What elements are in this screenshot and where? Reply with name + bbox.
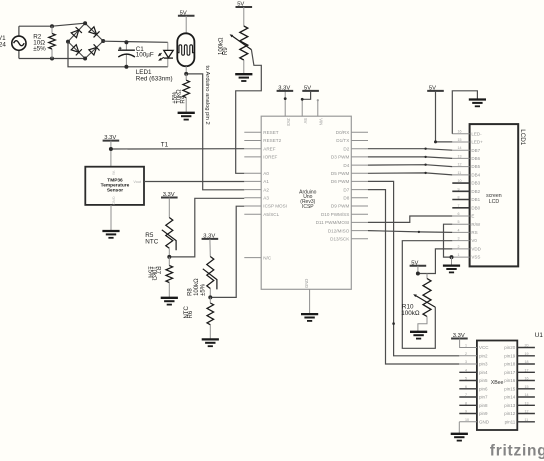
svg-text:6: 6 (465, 385, 467, 389)
svg-text:A5/SCL: A5/SCL (263, 212, 279, 217)
ground below XBee (451, 434, 468, 441)
svg-text:pin18: pin18 (504, 362, 516, 367)
svg-text:D7: D7 (343, 187, 349, 192)
wire bottom rail V1 to bridge (19, 57, 85, 61)
potentiometer R10 (401, 274, 435, 332)
5V power symbol above photoresistor (178, 10, 195, 33)
wire 5V to LCD LED+ (434, 91, 452, 143)
svg-text:D8: D8 (343, 196, 349, 201)
svg-text:D10 PWM/SS: D10 PWM/SS (321, 212, 349, 217)
svg-text:15: 15 (458, 138, 462, 142)
wire D7 to XBee pin3 (368, 190, 459, 364)
svg-text:13: 13 (525, 401, 529, 405)
wire D12 to LCD RS (368, 231, 452, 233)
svg-text:RS: RS (471, 230, 477, 235)
svg-text:U1: U1 (535, 332, 544, 339)
svg-text:pin5: pin5 (479, 378, 488, 383)
svg-text:±5%: ±5% (33, 46, 46, 53)
svg-text:DB3: DB3 (471, 181, 480, 186)
svg-text:DB1: DB1 (471, 197, 480, 202)
svg-text:pin2: pin2 (479, 353, 488, 358)
svg-text:XBee: XBee (491, 380, 504, 386)
svg-text:18: 18 (525, 360, 529, 364)
wire D3 to LCD DB6 (368, 156, 452, 159)
svg-text:A2: A2 (263, 187, 269, 192)
svg-text:pin7: pin7 (479, 395, 488, 400)
svg-text:±5%: ±5% (200, 283, 206, 296)
svg-text:LCD: LCD (489, 199, 500, 205)
potentiometer R9 (219, 26, 252, 74)
svg-text:pin11: pin11 (505, 419, 516, 424)
svg-text:20: 20 (525, 344, 529, 348)
label to Arduino analog pin 2 (204, 65, 210, 124)
wire bridge left node to lower rail (68, 42, 168, 67)
svg-text:8: 8 (465, 401, 467, 405)
svg-text:A0: A0 (263, 171, 269, 176)
temperature sensor TMP36 box (85, 167, 144, 205)
svg-text:V0: V0 (471, 238, 477, 243)
svg-text:D2: D2 (343, 146, 349, 151)
svg-text:11: 11 (525, 418, 529, 422)
svg-text:10: 10 (458, 179, 462, 183)
svg-text:VDD: VDD (471, 247, 481, 252)
svg-text:D0/RX: D0/RX (336, 130, 350, 135)
svg-text:12: 12 (458, 163, 462, 167)
resistor R6 (184, 297, 214, 338)
svg-text:LED+: LED+ (471, 140, 483, 145)
ground below R6 (202, 339, 219, 346)
LCD screen block LCD1 (470, 124, 527, 266)
svg-text:D9 PWM: D9 PWM (331, 204, 350, 209)
svg-text:pin8: pin8 (479, 403, 488, 408)
svg-text:pin6: pin6 (479, 386, 488, 391)
svg-text:8: 8 (458, 196, 460, 200)
svg-text:1: 1 (458, 253, 460, 257)
svg-text:16: 16 (458, 130, 462, 134)
wire top rail V1 to bridge (19, 23, 85, 28)
svg-text:pin12: pin12 (504, 411, 516, 416)
svg-text:100kΩ: 100kΩ (194, 278, 200, 296)
diode D upper-right (88, 26, 99, 37)
svg-text:D1/TX: D1/TX (336, 138, 349, 143)
svg-text:Sensor: Sensor (107, 187, 123, 193)
svg-text:D3 PWM: D3 PWM (331, 155, 350, 160)
XBee left pin stubs, numbers and labels (459, 344, 489, 425)
wire bridge right node to LED top rail (103, 41, 168, 42)
svg-text:19: 19 (525, 352, 529, 356)
3.3V power symbol above R5 (161, 192, 178, 217)
svg-text:14: 14 (525, 393, 529, 397)
svg-text:13: 13 (458, 154, 462, 158)
svg-text:24: 24 (0, 41, 6, 48)
wire D11 to LCD E (368, 216, 452, 222)
svg-text:DB2: DB2 (471, 189, 480, 194)
svg-text:7: 7 (465, 393, 467, 397)
ground below arduino (301, 314, 318, 321)
wire TMP36 GND pin down (110, 205, 112, 230)
svg-text:17: 17 (525, 368, 529, 372)
svg-text:RESET2: RESET2 (263, 138, 281, 143)
wire D6 to XBee pin2 (368, 181, 459, 355)
wire LCD R/W and VSS to ground junction (444, 224, 454, 259)
svg-text:D4: D4 (343, 163, 349, 168)
ground below R4 (178, 113, 195, 120)
wire TMP36 Vout to Arduino pin A1 (144, 181, 244, 183)
svg-text:pin4: pin4 (479, 370, 488, 375)
capacitor C1 (118, 40, 154, 69)
svg-text:14: 14 (458, 146, 462, 150)
wire R9 wiper to Arduino pin A0 (236, 50, 262, 174)
svg-text:R8: R8 (188, 288, 194, 296)
svg-text:R/W: R/W (471, 222, 481, 227)
5V power symbol above R9 (236, 2, 253, 26)
wire XBee GND to ground (458, 422, 460, 433)
diode D upper-left (71, 27, 82, 38)
svg-text:NTC: NTC (145, 238, 158, 245)
svg-text:D6 PWM: D6 PWM (331, 179, 350, 184)
svg-text:to Arduino analog pin 2: to Arduino analog pin 2 (204, 65, 210, 124)
svg-text:A1: A1 (263, 179, 269, 184)
svg-text:±5%: ±5% (173, 91, 179, 104)
svg-text:9: 9 (458, 187, 460, 191)
thermistor R8 (188, 257, 217, 298)
svg-text:100kΩ: 100kΩ (401, 310, 420, 317)
arduino left pin stubs and labels (244, 130, 287, 260)
wire 3.3V to XBee VCC (458, 339, 460, 348)
wire D2 to LCD DB7 (368, 148, 452, 151)
svg-text:10: 10 (465, 418, 469, 422)
ground below R9 (235, 74, 252, 81)
3.3V power symbol above XBee (451, 333, 468, 339)
svg-text:16: 16 (525, 377, 529, 381)
LCD pin stubs, numbers and labels (452, 130, 483, 260)
diode D lower-left (71, 44, 82, 55)
wire R8/R6 junction to Arduino ICSP MOSI (208, 206, 244, 299)
thermistor R5 (145, 218, 176, 257)
XBee right pin stubs, numbers and labels (504, 344, 535, 425)
svg-text:9: 9 (465, 410, 467, 414)
wire 5V to LCD VDD (418, 249, 452, 274)
5V power symbol above arduino (301, 86, 319, 101)
svg-text:VSS: VSS (471, 255, 480, 260)
svg-text:A3: A3 (263, 196, 269, 201)
svg-text:5V: 5V (303, 118, 308, 123)
svg-text:Red (633nm): Red (633nm) (136, 76, 173, 83)
arduino right pin stubs and labels (316, 130, 368, 242)
ground above LCD (469, 100, 486, 107)
ground below TMP36 (102, 231, 119, 238)
wire R5/R7 junction to Arduino pin A3 (167, 198, 244, 259)
svg-text:6: 6 (458, 212, 460, 216)
svg-text:VIN: VIN (318, 118, 323, 125)
svg-text:pin17: pin17 (504, 370, 516, 375)
svg-text:ICSP: ICSP (302, 204, 314, 210)
svg-text:D12/MISO: D12/MISO (328, 228, 350, 233)
svg-text:IOREF: IOREF (263, 155, 277, 160)
arduino top pin stubs 3V3 5V VIN (285, 91, 323, 127)
svg-text:NTC: NTC (184, 306, 190, 319)
svg-text:100µF: 100µF (136, 52, 154, 59)
diode D lower-right (88, 44, 99, 55)
svg-text:RESET: RESET (263, 130, 279, 135)
svg-text:100kΩ: 100kΩ (219, 37, 225, 55)
svg-text:2: 2 (458, 245, 460, 249)
svg-text:VCC: VCC (479, 345, 489, 350)
svg-text:N/C: N/C (263, 255, 272, 260)
LED LED1 (136, 42, 173, 82)
svg-text:GND: GND (304, 279, 309, 288)
svg-text:LCD1: LCD1 (519, 129, 526, 146)
5V power symbol above R10 (410, 260, 427, 275)
svg-text:pin15: pin15 (504, 386, 516, 391)
svg-text:fritzing: fritzing (490, 443, 544, 460)
svg-text:pin19: pin19 (504, 353, 516, 358)
svg-text:4: 4 (465, 368, 467, 372)
3.3V power symbol above arduino (277, 86, 294, 101)
wire LDR junction to Arduino pin A2 (184, 72, 244, 190)
svg-text:ICSP MOSI: ICSP MOSI (263, 204, 287, 209)
3.3V power symbol above R8 (202, 234, 219, 257)
resistor R2 (33, 26, 55, 58)
3.3V power symbol above TMP36 (103, 135, 120, 167)
wire D5 to LCD DB4 (368, 172, 452, 175)
svg-text:Vs: Vs (112, 171, 116, 176)
svg-text:GND: GND (479, 419, 490, 424)
svg-text:Vout: Vout (133, 180, 142, 184)
svg-text:5: 5 (458, 220, 460, 224)
wire R10 wiper to LCD V0 (402, 241, 452, 349)
svg-text:pin20: pin20 (504, 345, 516, 350)
svg-text:pin3: pin3 (479, 362, 488, 367)
arduino U (Uno Rev3) box (261, 116, 351, 289)
svg-text:3: 3 (458, 237, 460, 241)
svg-text:pin16: pin16 (504, 378, 516, 383)
svg-text:7: 7 (458, 204, 460, 208)
svg-text:GND: GND (112, 196, 116, 205)
svg-text:E: E (471, 214, 474, 219)
ground below R10 (410, 332, 427, 339)
svg-text:3: 3 (465, 360, 467, 364)
svg-text:11: 11 (458, 171, 462, 175)
svg-text:2: 2 (465, 352, 467, 356)
svg-text:D11 PWM/MOSI: D11 PWM/MOSI (316, 220, 350, 225)
wire D4 to LCD DB5 (368, 164, 452, 167)
svg-text:5: 5 (465, 377, 467, 381)
XBee block U1 (477, 332, 543, 430)
svg-text:AREF: AREF (263, 146, 275, 151)
svg-text:1: 1 (465, 344, 467, 348)
svg-text:T1: T1 (161, 142, 169, 149)
svg-text:±5%: ±5% (147, 266, 153, 279)
wire LCD LED- to ground (452, 91, 477, 134)
fritzing logo (490, 443, 544, 460)
svg-text:4: 4 (458, 228, 460, 232)
diode bridge edges (66, 21, 105, 60)
svg-text:15: 15 (525, 385, 529, 389)
arduino bottom GND pin (304, 279, 310, 314)
svg-text:pin14: pin14 (504, 395, 516, 400)
5V power symbol above LCD (427, 86, 444, 92)
photoresistor LDR (177, 33, 194, 74)
ac voltage source V1 (0, 26, 26, 58)
resistor R4 (173, 74, 190, 113)
svg-text:DB7: DB7 (471, 148, 480, 153)
svg-text:LED-: LED- (471, 131, 482, 136)
svg-text:DB4: DB4 (471, 173, 480, 178)
svg-text:DB0: DB0 (471, 205, 480, 210)
svg-text:DB5: DB5 (471, 164, 480, 169)
svg-text:pin13: pin13 (504, 403, 516, 408)
ground below LCD VSS (443, 257, 460, 272)
svg-text:12: 12 (525, 410, 529, 414)
svg-text:pin9: pin9 (479, 411, 488, 416)
svg-text:D13/SCK: D13/SCK (330, 237, 350, 242)
svg-text:D5 PWM: D5 PWM (331, 171, 350, 176)
wire T1 to Arduino AREF (109, 142, 244, 151)
ground below R7 (161, 298, 178, 305)
resistor R7 (147, 257, 173, 297)
svg-text:DB6: DB6 (471, 156, 480, 161)
svg-text:3V3: 3V3 (286, 118, 291, 126)
